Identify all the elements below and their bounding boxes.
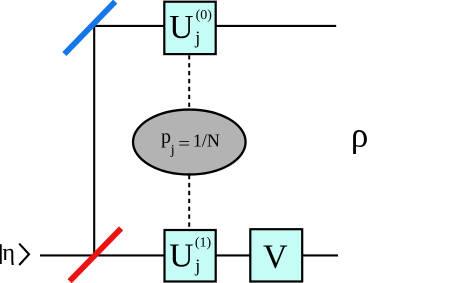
- svg-text:j: j: [194, 256, 200, 276]
- svg-text:(0): (0): [196, 8, 213, 23]
- svg-text:j: j: [170, 143, 175, 158]
- svg-text:(1): (1): [195, 236, 212, 251]
- svg-text:p: p: [161, 126, 171, 148]
- svg-text:j: j: [194, 27, 200, 47]
- svg-text:=: =: [178, 135, 190, 154]
- svg-text:V: V: [263, 238, 288, 275]
- svg-text:1/N: 1/N: [193, 131, 220, 151]
- svg-text:η: η: [2, 239, 15, 266]
- svg-text:U: U: [169, 9, 193, 46]
- svg-text:U: U: [169, 237, 193, 274]
- svg-text:ρ: ρ: [351, 115, 368, 154]
